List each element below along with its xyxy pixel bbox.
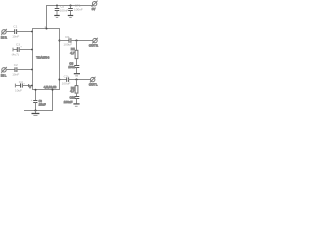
wire ground pin down and rail [24, 90, 53, 111]
capacitor C8 [74, 66, 79, 74]
wire C2 to pin [17, 69, 33, 71]
svg-text:4,5,12,13: 4,5,12,13 [44, 85, 57, 89]
node junction dot out L [75, 78, 77, 80]
capacitor C3 [13, 47, 19, 52]
value label C2 10nF [12, 63, 19, 77]
svg-text:IN R: IN R [1, 35, 7, 39]
wire pin to C9 [35, 90, 37, 101]
pin tick supply [45, 26, 47, 28]
svg-text:C1: C1 [13, 24, 17, 28]
capacitor C7 [67, 77, 69, 82]
node pin dot IN R [31, 31, 33, 33]
value label R5 4.7 [70, 47, 75, 55]
svg-text:OUT L: OUT L [89, 82, 98, 86]
terminal IN R [1, 29, 7, 39]
value label C6 [63, 35, 72, 46]
capacitor C9 electrolytic [31, 99, 38, 111]
resistor R5 [75, 50, 78, 58]
value label CF1 100nF [74, 3, 83, 11]
svg-text:100nF: 100nF [74, 7, 83, 11]
wire pin to C6 [60, 40, 70, 42]
capacitor C2 [15, 67, 17, 72]
value label C1 10nF [12, 24, 19, 38]
wire C3 to pin [19, 49, 32, 51]
svg-text:IN L: IN L [1, 73, 7, 77]
node output pin right R [58, 39, 60, 41]
svg-text:4,7: 4,7 [70, 89, 75, 93]
svg-text:10uF: 10uF [15, 88, 22, 92]
ground (C8) [74, 74, 80, 76]
wire C4 to pin 3 [22, 85, 32, 87]
wire R6 to C10 [76, 93, 78, 96]
capacitor C1 [15, 29, 17, 34]
value label C5 100nF [60, 4, 69, 12]
wire C6 to OUT R [71, 40, 93, 42]
terminal OUT L [89, 77, 98, 87]
node pin dot C9 [35, 89, 37, 91]
wire C7 to OUT L [69, 79, 91, 81]
svg-text:9V: 9V [92, 7, 96, 11]
wire top supply rail [47, 6, 94, 29]
wire input L [6, 69, 15, 71]
wire C1 to pin [17, 31, 33, 33]
node junction dot ground rail [34, 109, 36, 111]
value label C4 10uF [15, 80, 25, 92]
terminal OUT R [89, 38, 98, 48]
svg-text:10nF: 10nF [12, 73, 19, 77]
node pin dot out L [58, 79, 60, 81]
value label R6 4.7 [70, 86, 75, 93]
resistor R6 [75, 86, 78, 94]
capacitor C4 [15, 83, 22, 87]
capacitor C6 [69, 38, 71, 43]
node pin dot pin 3 [31, 85, 33, 87]
svg-text:OUT R: OUT R [89, 43, 98, 47]
svg-text:100n: 100n [68, 65, 75, 69]
terminal IN L [1, 67, 7, 77]
terminal 9V supply [92, 1, 98, 11]
ground (main) [32, 111, 40, 116]
ground (CF1) [68, 16, 73, 18]
node pin dot C3 [31, 49, 33, 51]
ground (C10) [73, 104, 79, 106]
svg-text:4,7: 4,7 [70, 51, 75, 55]
node junction dot out R [75, 39, 77, 41]
node junction dot top rail B [69, 4, 71, 6]
wire input R [6, 31, 15, 33]
capacitor CF1 [68, 6, 73, 16]
pin tick pin 3 [28, 84, 30, 87]
op-amp U1 IC box TDA2504 [33, 29, 60, 90]
capacitor C5 [55, 6, 60, 16]
value label C3 4u7 [12, 42, 23, 56]
ground (C5) [54, 16, 59, 18]
node pin dot ground pin [52, 89, 54, 91]
svg-text:100nF: 100nF [60, 8, 69, 12]
node junction dot top rail A [56, 4, 58, 6]
wire junction to R6 [76, 80, 78, 86]
value label C7 [62, 75, 71, 86]
svg-text:10nF: 10nF [12, 35, 19, 39]
value label C9 25uF [39, 99, 46, 106]
wire junction to R5 [76, 41, 78, 51]
node pin dot IN L [31, 69, 33, 71]
wire R5 to C8 [76, 59, 78, 66]
svg-text:100uF: 100uF [62, 82, 71, 86]
value label C10 100n [64, 96, 76, 104]
svg-text:TDA2504: TDA2504 [36, 56, 49, 60]
node supply pin dot [46, 28, 48, 30]
svg-text:100uF: 100uF [63, 42, 72, 46]
capacitor C10 [74, 97, 79, 104]
wire pin to C7 [60, 79, 67, 81]
value label C8 100n [68, 61, 75, 69]
svg-text:C2: C2 [14, 63, 18, 67]
svg-text:25uF: 25uF [39, 103, 46, 107]
svg-text:(4u7): (4u7) [12, 52, 19, 56]
svg-text:100nF: 100nF [64, 100, 73, 104]
